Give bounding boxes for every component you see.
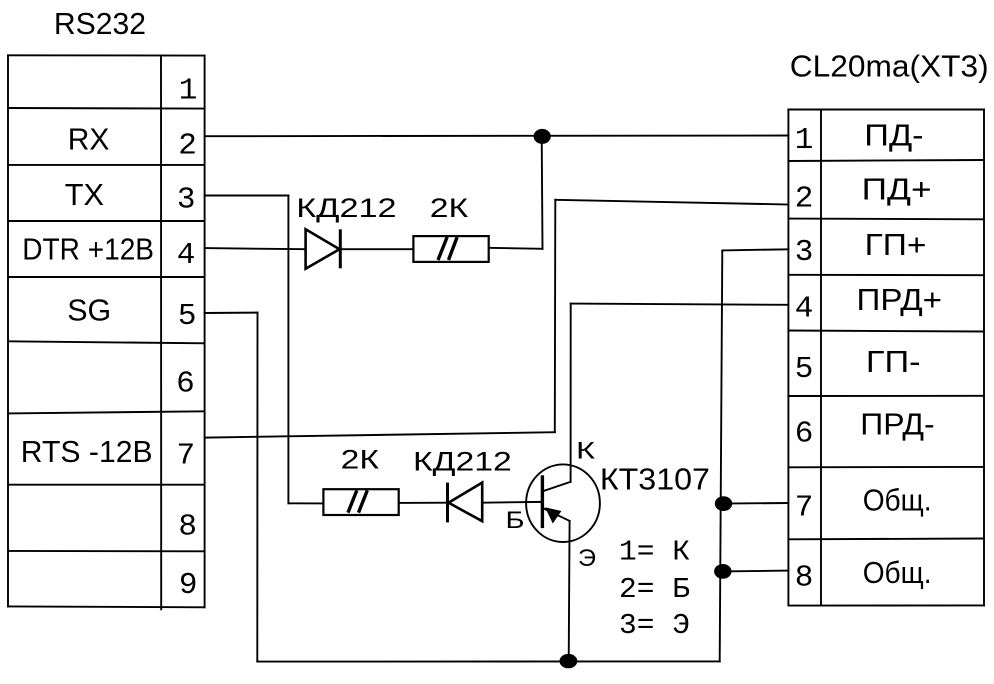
svg-text:8: 8 [178,510,197,545]
svg-text:2: 2 [795,182,814,217]
svg-text:ПРД+: ПРД+ [857,282,943,317]
svg-text:К: К [576,438,595,465]
svg-text:TX: TX [65,177,105,212]
svg-text:3= Э: 3= Э [619,609,690,642]
svg-text:8: 8 [795,561,814,596]
svg-text:Общ.: Общ. [863,483,932,518]
svg-text:2: 2 [178,129,197,164]
svg-text:RS232: RS232 [54,6,146,41]
svg-text:1= К: 1= К [619,536,690,569]
svg-text:ПД+: ПД+ [862,171,932,206]
svg-text:6: 6 [176,366,195,401]
svg-text:DTR +12В: DTR +12В [22,232,154,267]
svg-text:ГП-: ГП- [866,344,921,379]
svg-text:2К: 2К [341,445,380,475]
svg-text:RX: RX [68,122,110,157]
svg-text:3: 3 [795,235,814,270]
svg-text:4: 4 [177,238,196,273]
svg-text:2= Б: 2= Б [619,573,690,606]
svg-text:CL20ma(XT3): CL20ma(XT3) [790,49,989,84]
svg-text:7: 7 [795,491,814,526]
svg-text:3: 3 [177,183,196,218]
svg-text:SG: SG [67,293,111,328]
svg-text:RTS -12В: RTS -12В [21,434,153,469]
svg-text:5: 5 [178,299,197,334]
svg-text:Б: Б [506,507,525,534]
svg-text:1: 1 [795,123,814,158]
svg-text:5: 5 [795,352,814,387]
svg-text:1: 1 [179,74,198,109]
svg-text:9: 9 [179,568,198,603]
svg-text:Э: Э [578,545,596,572]
svg-text:7: 7 [176,439,195,474]
svg-text:2К: 2К [430,193,469,223]
svg-text:4: 4 [795,292,814,327]
svg-text:КТ3107: КТ3107 [600,462,710,497]
svg-text:ГП+: ГП+ [865,227,927,262]
svg-text:КД212: КД212 [296,193,396,223]
svg-text:6: 6 [795,416,814,451]
svg-text:КД212: КД212 [413,447,512,477]
svg-text:ПД-: ПД- [864,118,923,153]
svg-text:Общ.: Общ. [863,555,932,590]
svg-text:ПРД-: ПРД- [860,406,934,441]
